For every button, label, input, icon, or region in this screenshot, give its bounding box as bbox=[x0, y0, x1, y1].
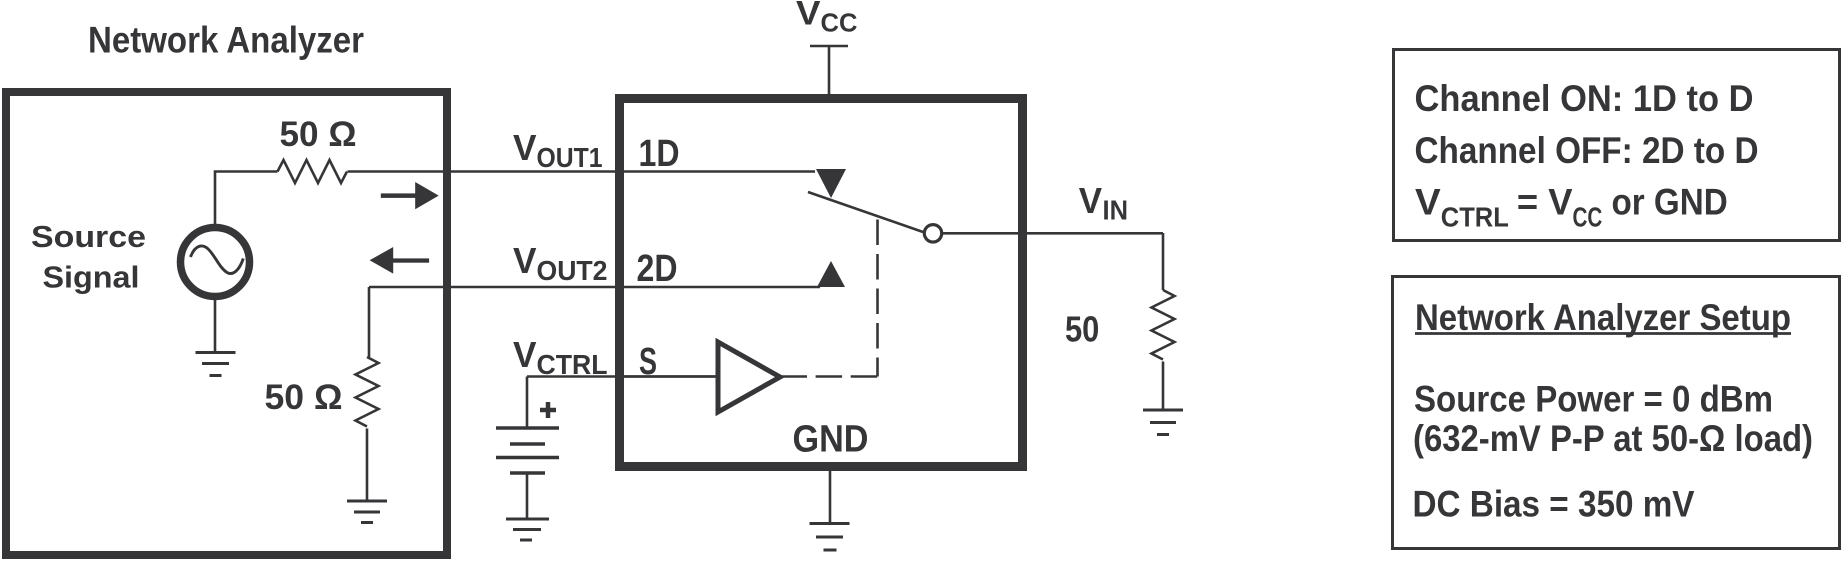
ground: below resistor R2 bbox=[347, 501, 387, 523]
ground: below source signal bbox=[196, 353, 236, 376]
switch arm bbox=[808, 192, 923, 232]
svg-text:Channel ON: 1D to D: Channel ON: 1D to D bbox=[1415, 78, 1754, 119]
wire: switch box GND to ground bbox=[829, 467, 832, 524]
buffer U2 triangle bbox=[718, 342, 780, 412]
wire: 1D pin to switch contact bbox=[624, 170, 815, 173]
svg-text:GND: GND bbox=[793, 419, 869, 461]
svg-text:CTRL: CTRL bbox=[1441, 202, 1509, 233]
wire: VOUT2 horizontal into box bbox=[369, 286, 624, 289]
svg-text:V: V bbox=[513, 334, 537, 375]
wire: resistor R2 to ground bbox=[366, 429, 369, 502]
svg-text:Channel OFF: 2D to D: Channel OFF: 2D to D bbox=[1415, 130, 1759, 171]
wire: battery to ground bbox=[526, 473, 529, 519]
network analyzer enclosure box bbox=[6, 92, 447, 555]
wire: VCTRL down to battery bbox=[526, 377, 529, 429]
ground: below resistor R3 bbox=[1143, 410, 1183, 435]
wire: source top to resistor R1 bbox=[215, 172, 278, 229]
svg-text:2D: 2D bbox=[637, 248, 678, 290]
svg-text:V: V bbox=[1079, 180, 1102, 221]
wire: resistor R1 to 1D pin of switch box bbox=[348, 170, 625, 173]
annotation box 1 bbox=[1394, 50, 1840, 241]
annotation box 2 bbox=[1393, 277, 1840, 549]
svg-text:50 Ω: 50 Ω bbox=[265, 378, 343, 417]
svg-text:Source: Source bbox=[31, 219, 146, 254]
wire: switch pole to VIN node bbox=[942, 232, 1164, 235]
svg-text:V: V bbox=[1415, 182, 1441, 223]
svg-text:OUT1: OUT1 bbox=[537, 142, 603, 173]
wire: VCC down to switch box bbox=[828, 46, 831, 99]
sine wave inside source bbox=[191, 246, 244, 274]
svg-text:DC Bias = 350 mV: DC Bias = 350 mV bbox=[1413, 484, 1695, 525]
svg-text:50: 50 bbox=[1065, 309, 1099, 350]
wire: resistor R3 to ground bbox=[1162, 362, 1165, 411]
wire: source bottom to ground bbox=[214, 296, 217, 353]
svg-text:(632-mV P-P at 50-Ω load): (632-mV P-P at 50-Ω load) bbox=[1413, 418, 1813, 459]
switch device box U1 bbox=[620, 99, 1023, 467]
VCC supply T-bar bbox=[810, 45, 848, 48]
arrow: reverse direction bbox=[370, 247, 430, 274]
svg-text:or GND: or GND bbox=[1612, 182, 1728, 223]
svg-text:= V: = V bbox=[1517, 182, 1573, 223]
svg-text:CC: CC bbox=[821, 8, 858, 38]
svg-text:OUT2: OUT2 bbox=[537, 255, 608, 286]
wire: S pin to buffer input bbox=[624, 375, 718, 378]
switch contact 2D (up triangle) bbox=[817, 261, 845, 287]
battery plus sign bbox=[540, 402, 556, 418]
svg-text:1D: 1D bbox=[639, 133, 680, 175]
switch pole circle bbox=[924, 225, 941, 242]
source signal AC source circle bbox=[181, 228, 250, 297]
ground: below battery bbox=[506, 519, 549, 540]
ground: below switch box bbox=[810, 524, 850, 551]
resistor R3 50 ohm vertical load bbox=[1152, 290, 1175, 360]
svg-text:50 Ω: 50 Ω bbox=[280, 115, 357, 154]
wire: 2D pin to switch contact bbox=[624, 286, 820, 289]
svg-text:Network Analyzer: Network Analyzer bbox=[88, 20, 364, 61]
svg-text:Source Power = 0 dBm: Source Power = 0 dBm bbox=[1414, 379, 1773, 420]
svg-text:Signal: Signal bbox=[43, 260, 140, 295]
battery V1 plates bbox=[496, 428, 559, 473]
svg-text:CC: CC bbox=[1573, 202, 1603, 233]
wire: VOUT2 down to resistor R2 bbox=[368, 287, 371, 357]
resistor R1 50 ohm horizontal bbox=[278, 160, 348, 183]
svg-text:V: V bbox=[796, 0, 821, 33]
svg-text:Network Analyzer Setup: Network Analyzer Setup bbox=[1415, 297, 1791, 338]
svg-text:IN: IN bbox=[1103, 195, 1129, 226]
wire: VIN node down to resistor R3 bbox=[1162, 233, 1165, 290]
dashed control line from buffer to switch arm bbox=[781, 375, 878, 378]
dashed control line vertical to switch arm bbox=[876, 220, 879, 377]
svg-text:V: V bbox=[513, 127, 537, 168]
switch contact 1D (down triangle) bbox=[816, 169, 846, 198]
wire: VCTRL horizontal to buffer bbox=[527, 375, 718, 378]
resistor R2 50 ohm vertical bbox=[356, 357, 379, 427]
svg-text:V: V bbox=[513, 240, 537, 281]
arrow: forward direction bbox=[381, 182, 439, 209]
